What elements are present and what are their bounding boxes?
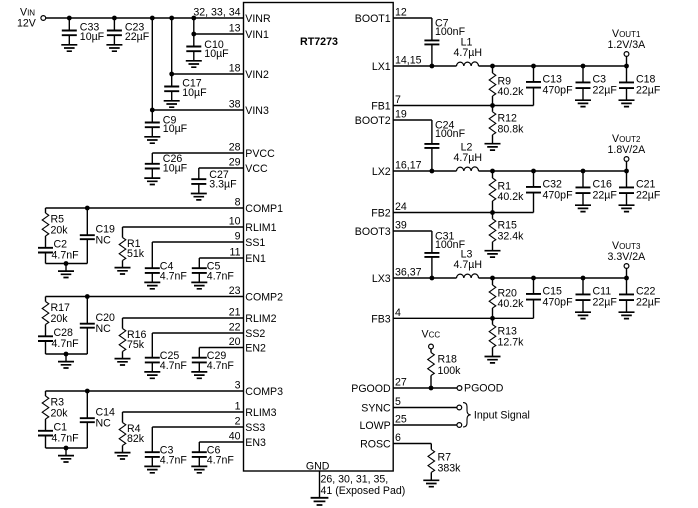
inductor L1 4.7µH xyxy=(454,37,482,67)
svg-text:16,17: 16,17 xyxy=(395,160,422,172)
wire FB2 xyxy=(393,212,492,214)
pin 7 FB1 label xyxy=(371,94,401,113)
pin 22 SS2 label xyxy=(229,322,266,341)
svg-text:12: 12 xyxy=(395,7,407,19)
pin 24 FB2 label xyxy=(371,201,407,220)
svg-text:EN1: EN1 xyxy=(245,253,266,265)
svg-text:10µF: 10µF xyxy=(163,162,188,174)
capacitor C23 22µF with ground xyxy=(106,18,149,51)
node VOUT3 terminal xyxy=(608,240,647,278)
svg-text:3: 3 xyxy=(235,380,241,392)
svg-text:LX2: LX2 xyxy=(372,166,391,178)
node VOUT1 terminal xyxy=(608,28,647,66)
pin 20 EN2 label xyxy=(229,336,266,355)
svg-text:24: 24 xyxy=(395,201,407,213)
svg-text:36,37: 36,37 xyxy=(395,267,422,279)
svg-text:32.4k: 32.4k xyxy=(498,231,525,243)
svg-text:39: 39 xyxy=(395,220,407,232)
pin 13 VIN1 label xyxy=(229,23,269,42)
svg-text:26, 30, 31, 35,: 26, 30, 31, 35, xyxy=(321,474,389,486)
svg-text:38: 38 xyxy=(229,99,241,111)
svg-text:12V: 12V xyxy=(17,18,37,30)
pin 12 BOOT1 label xyxy=(355,7,407,26)
svg-text:10µF: 10µF xyxy=(182,87,207,99)
svg-text:82k: 82k xyxy=(127,433,145,445)
svg-text:VCC: VCC xyxy=(245,163,268,175)
svg-text:PGOOD: PGOOD xyxy=(351,383,391,395)
wire PVCC xyxy=(152,152,243,154)
wire LX1 rail xyxy=(393,65,626,67)
wire VCC pin xyxy=(199,167,244,169)
resistor R4 82k on RLIM3 xyxy=(115,412,244,459)
pin 23 COMP2 label xyxy=(229,285,283,304)
svg-text:22µF: 22µF xyxy=(593,296,618,308)
svg-text:FB1: FB1 xyxy=(371,101,391,113)
svg-text:SYNC: SYNC xyxy=(361,403,391,415)
svg-text:10µF: 10µF xyxy=(204,48,229,60)
svg-text:VCC: VCC xyxy=(422,329,441,341)
svg-text:470pF: 470pF xyxy=(543,84,574,96)
pin 5 SYNC label xyxy=(361,396,401,415)
capacitor C3 22µF output cap A ch1 xyxy=(575,66,617,107)
svg-text:BOOT2: BOOT2 xyxy=(355,115,391,127)
svg-text:NC: NC xyxy=(96,234,112,246)
svg-text:1: 1 xyxy=(235,401,241,413)
capacitor C29 4.7nF on EN2 xyxy=(191,348,243,379)
resistor R16 75k on RLIM2 xyxy=(115,318,244,365)
capacitor C5 4.7nF on EN1 xyxy=(191,258,243,289)
svg-text:4.7µH: 4.7µH xyxy=(454,47,482,59)
capacitor C4 4.7nF on SS1 xyxy=(144,242,243,289)
svg-text:383k: 383k xyxy=(438,463,462,475)
pin 8 COMP1 label xyxy=(235,197,283,216)
svg-text:25: 25 xyxy=(395,414,407,426)
pin 25 LOWP label xyxy=(359,414,406,433)
svg-text:13: 13 xyxy=(229,23,241,35)
svg-text:80.8k: 80.8k xyxy=(498,124,525,136)
svg-text:4.7µH: 4.7µH xyxy=(454,152,482,164)
svg-text:4.7nF: 4.7nF xyxy=(207,360,235,372)
svg-text:SS1: SS1 xyxy=(245,237,265,249)
svg-text:4.7nF: 4.7nF xyxy=(52,338,80,350)
wire ROSC xyxy=(393,443,431,445)
svg-text:20k: 20k xyxy=(51,407,69,419)
svg-text:100k: 100k xyxy=(438,365,462,377)
svg-text:19: 19 xyxy=(395,109,407,121)
op-amp U1 RT7273 IC body xyxy=(244,3,394,472)
capacitor C19 NC (not connected) xyxy=(80,208,115,264)
capacitor C11 22µF output cap A ch3 xyxy=(575,278,617,319)
resistor R1 40.2k feedback top xyxy=(489,171,524,213)
wire COMP2 xyxy=(46,296,244,298)
resistor R1 51k on RLIM1 xyxy=(115,227,244,274)
svg-text:7: 7 xyxy=(395,94,401,106)
capacitor C28 4.7nF xyxy=(38,325,79,355)
wire FB1 xyxy=(393,105,492,107)
svg-text:NC: NC xyxy=(96,323,112,335)
svg-text:29: 29 xyxy=(229,157,241,169)
svg-text:22µF: 22µF xyxy=(125,31,150,43)
node PGOOD output terminal xyxy=(457,383,504,395)
inductor L2 4.7µH xyxy=(454,142,482,172)
svg-text:PVCC: PVCC xyxy=(245,148,275,160)
node SYNC terminal xyxy=(457,405,462,410)
capacitor C13 470pF feedforward xyxy=(493,66,574,106)
svg-text:LX1: LX1 xyxy=(372,61,391,73)
pin 11 EN1 label xyxy=(230,247,267,266)
node Input Signal brace and label xyxy=(463,403,530,427)
capacitor C7 100nF bootstrap xyxy=(424,17,465,66)
svg-text:22: 22 xyxy=(229,322,241,334)
pin 3 COMP3 label xyxy=(235,380,283,399)
capacitor C14 NC (not connected) xyxy=(80,391,115,448)
ground of compensation ch2 xyxy=(58,354,74,368)
svg-text:4.7nF: 4.7nF xyxy=(207,454,235,466)
pin 14,15 LX1 label xyxy=(372,55,422,74)
pin 27 PGOOD label xyxy=(351,377,407,396)
node VIN input terminal xyxy=(17,7,46,30)
resistor R3 20k xyxy=(42,391,68,419)
wire compensation bottom ch2 xyxy=(46,294,90,356)
svg-text:COMP2: COMP2 xyxy=(245,292,283,304)
resistor R9 40.2k feedback top xyxy=(489,66,524,106)
svg-text:100nF: 100nF xyxy=(435,128,466,140)
svg-text:27: 27 xyxy=(395,377,407,389)
node GND exposed pad xyxy=(306,460,405,497)
wire SYNC xyxy=(393,407,457,409)
capacitor C25 4.7nF on SS2 xyxy=(144,333,243,378)
svg-text:22µF: 22µF xyxy=(636,296,661,308)
svg-text:4.7nF: 4.7nF xyxy=(52,249,80,261)
svg-text:2: 2 xyxy=(235,416,241,428)
resistor R17 20k xyxy=(42,297,70,325)
pin 10 RLIM1 label xyxy=(229,216,277,235)
svg-text:14,15: 14,15 xyxy=(395,55,422,67)
wire VIN2 branch xyxy=(172,18,244,74)
pin 9 SS1 label xyxy=(235,231,266,250)
resistor R7 383k xyxy=(423,444,461,487)
wire COMP3 xyxy=(46,390,244,392)
svg-text:3.3µF: 3.3µF xyxy=(209,179,237,191)
pin 29 VCC label xyxy=(229,157,268,176)
svg-text:SS3: SS3 xyxy=(245,422,265,434)
pin 36,37 LX3 label xyxy=(372,267,422,286)
svg-text:RT7273: RT7273 xyxy=(300,36,338,48)
resistor R20 40.2k feedback top xyxy=(489,278,524,318)
svg-text:LX3: LX3 xyxy=(372,273,391,285)
svg-text:22µF: 22µF xyxy=(636,189,661,201)
svg-text:NC: NC xyxy=(96,417,112,429)
ground of compensation ch1 xyxy=(58,264,74,278)
svg-text:40.2k: 40.2k xyxy=(498,191,525,203)
capacitor C6 4.7nF on EN3 xyxy=(191,442,243,473)
svg-text:20k: 20k xyxy=(51,313,69,325)
capacitor C9 10µF with ground xyxy=(144,110,187,143)
svg-text:12.7k: 12.7k xyxy=(498,337,525,349)
svg-text:40.2k: 40.2k xyxy=(498,86,525,98)
svg-text:4: 4 xyxy=(395,307,401,319)
svg-text:40: 40 xyxy=(229,431,241,443)
svg-text:21: 21 xyxy=(229,307,241,319)
svg-text:4.7nF: 4.7nF xyxy=(160,360,188,372)
svg-text:22µF: 22µF xyxy=(636,84,661,96)
svg-text:VIN2: VIN2 xyxy=(245,69,269,81)
pin 2 SS3 label xyxy=(235,416,266,435)
resistor R5 20k xyxy=(42,208,68,236)
ground of compensation ch3 xyxy=(58,448,74,462)
wire compensation bottom ch1 xyxy=(46,206,90,266)
svg-text:4.7nF: 4.7nF xyxy=(160,454,188,466)
svg-text:4.7µH: 4.7µH xyxy=(454,259,482,271)
svg-text:BOOT3: BOOT3 xyxy=(355,226,391,238)
svg-text:RLIM2: RLIM2 xyxy=(245,313,276,325)
svg-text:R18: R18 xyxy=(438,354,458,366)
svg-text:22µF: 22µF xyxy=(593,189,618,201)
svg-text:RLIM1: RLIM1 xyxy=(245,222,276,234)
capacitor C26 10µF with ground xyxy=(144,153,187,185)
svg-text:COMP1: COMP1 xyxy=(245,203,283,215)
capacitor C16 22µF output cap A ch2 xyxy=(575,171,617,212)
pin 6 ROSC label xyxy=(360,432,401,451)
svg-text:11: 11 xyxy=(230,247,241,259)
junction dots LX2/FB2 xyxy=(430,169,629,215)
svg-text:PGOOD: PGOOD xyxy=(464,383,504,395)
resistor R18 100k pull-up xyxy=(428,349,461,388)
capacitor C10 10µF with ground xyxy=(186,34,229,67)
svg-text:6: 6 xyxy=(395,432,401,444)
svg-text:RLIM3: RLIM3 xyxy=(245,407,276,419)
svg-text:EN2: EN2 xyxy=(245,343,266,355)
svg-text:ROSC: ROSC xyxy=(360,439,391,451)
wire COMP1 xyxy=(46,207,244,209)
svg-text:3.3V/2A: 3.3V/2A xyxy=(608,251,647,263)
capacitor C1 4.7nF xyxy=(38,419,79,448)
pin 40 EN3 label xyxy=(229,431,266,450)
svg-text:COMP3: COMP3 xyxy=(245,386,283,398)
junction dots LX1/FB1 xyxy=(430,64,629,108)
svg-text:BOOT1: BOOT1 xyxy=(355,13,391,25)
svg-text:51k: 51k xyxy=(127,248,145,260)
pin 21 RLIM2 label xyxy=(229,307,277,326)
pin 39 BOOT3 label xyxy=(355,220,407,239)
pin 32, 33, 34 VINR label xyxy=(193,7,271,26)
svg-text:10: 10 xyxy=(229,216,241,228)
capacitor C31 100nF bootstrap xyxy=(424,230,465,278)
svg-text:9: 9 xyxy=(235,231,241,243)
wire GND stub xyxy=(319,471,321,497)
wire PGOOD xyxy=(393,386,457,391)
svg-text:8: 8 xyxy=(235,197,241,209)
junction dots LX3/FB3 xyxy=(430,276,629,321)
wire BOOT1 xyxy=(393,17,432,19)
svg-text:4.7nF: 4.7nF xyxy=(52,432,80,444)
svg-text:32, 33, 34: 32, 33, 34 xyxy=(193,7,240,19)
svg-text:1.8V/2A: 1.8V/2A xyxy=(608,144,647,156)
inductor L3 4.7µH xyxy=(454,249,482,279)
capacitor C18 22µF output cap B ch1 xyxy=(619,66,661,107)
svg-text:1.2V/3A: 1.2V/3A xyxy=(608,39,647,51)
svg-text:4.7nF: 4.7nF xyxy=(207,270,235,282)
node VOUT2 terminal xyxy=(608,133,647,171)
node VCC terminal above R18 xyxy=(422,329,441,349)
capacitor C17 10µF with ground xyxy=(164,74,207,107)
svg-text:23: 23 xyxy=(229,285,241,297)
svg-text:VINR: VINR xyxy=(245,13,271,25)
svg-text:20: 20 xyxy=(229,336,241,348)
svg-text:22µF: 22µF xyxy=(593,84,618,96)
capacitor C24 100nF bootstrap xyxy=(424,119,465,171)
wire VIN rail xyxy=(46,17,244,19)
svg-text:FB2: FB2 xyxy=(371,208,391,220)
pin 1 RLIM3 label xyxy=(235,401,277,420)
resistor R15 32.4k feedback bottom xyxy=(485,213,525,258)
svg-text:10µF: 10µF xyxy=(163,123,188,135)
svg-text:VIN1: VIN1 xyxy=(245,29,269,41)
svg-text:470pF: 470pF xyxy=(543,189,574,201)
pin 18 VIN2 label xyxy=(229,63,269,82)
svg-text:SS2: SS2 xyxy=(245,328,265,340)
wire compensation bottom ch3 xyxy=(46,389,90,451)
svg-text:75k: 75k xyxy=(127,339,145,351)
svg-text:20k: 20k xyxy=(51,224,69,236)
wire VIN3 branch xyxy=(152,18,243,110)
pin 16,17 LX2 label xyxy=(372,160,422,179)
capacitor C21 22µF output cap B ch2 xyxy=(619,171,661,212)
svg-text:18: 18 xyxy=(229,63,241,75)
svg-text:4.7nF: 4.7nF xyxy=(160,270,188,282)
wire LX2 rail xyxy=(393,170,626,172)
svg-text:40.2k: 40.2k xyxy=(498,298,525,310)
svg-text:VIN3: VIN3 xyxy=(245,105,269,117)
capacitor C33 10µF with ground xyxy=(61,18,104,51)
capacitor C2 4.7nF xyxy=(38,236,79,264)
svg-text:10µF: 10µF xyxy=(80,31,105,43)
svg-text:470pF: 470pF xyxy=(543,296,574,308)
capacitor C22 22µF output cap B ch3 xyxy=(619,278,661,319)
wire VIN1 branch xyxy=(194,18,244,34)
node LOWP terminal xyxy=(457,423,462,428)
junction dots on VIN rail xyxy=(67,16,196,113)
capacitor C3 4.7nF on SS3 xyxy=(144,427,243,473)
wire FB3 xyxy=(393,317,492,319)
wire LOWP xyxy=(393,424,457,426)
capacitor C15 470pF feedforward xyxy=(493,278,574,318)
capacitor C32 470pF feedforward xyxy=(493,171,574,213)
svg-text:28: 28 xyxy=(229,142,241,154)
pin 28 PVCC label xyxy=(229,142,275,161)
svg-text:Input Signal: Input Signal xyxy=(474,409,530,421)
pin 4 FB3 label xyxy=(371,307,401,326)
svg-text:GND: GND xyxy=(306,460,330,472)
svg-text:LOWP: LOWP xyxy=(359,420,390,432)
pin 19 BOOT2 label xyxy=(355,109,407,128)
capacitor C20 NC (not connected) xyxy=(80,297,115,355)
svg-text:41 (Exposed Pad): 41 (Exposed Pad) xyxy=(321,485,406,497)
svg-text:FB3: FB3 xyxy=(371,313,391,325)
svg-text:EN3: EN3 xyxy=(245,437,266,449)
wire BOOT3 xyxy=(393,230,432,232)
resistor R12 80.8k feedback bottom xyxy=(485,106,525,151)
svg-text:5: 5 xyxy=(395,396,401,408)
resistor R13 12.7k feedback bottom xyxy=(485,318,525,363)
capacitor C27 3.3µF with ground xyxy=(191,168,237,200)
pin 38 VIN3 label xyxy=(229,99,269,118)
ground GND symbol xyxy=(311,498,329,505)
wire LX3 rail xyxy=(393,277,626,279)
wire BOOT2 xyxy=(393,119,432,121)
